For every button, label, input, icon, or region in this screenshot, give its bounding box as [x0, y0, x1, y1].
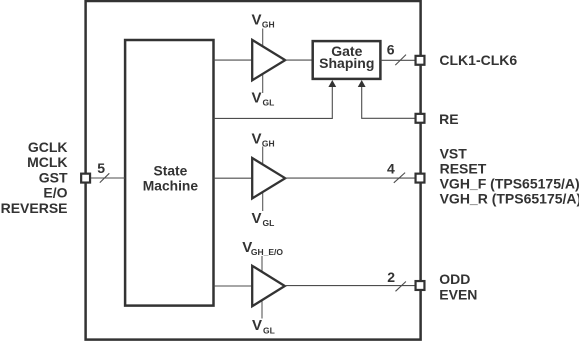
svg-text:REVERSE: REVERSE — [1, 200, 68, 216]
arrowhead into Gate Shaping (left) — [328, 80, 336, 87]
svg-text:ODD: ODD — [439, 271, 470, 287]
buffer A1 (level shifter triangle) — [252, 40, 285, 80]
buffer A2 (level shifter triangle) — [252, 158, 285, 198]
svg-text:5: 5 — [97, 160, 105, 176]
outer chip boundary box — [86, 1, 421, 340]
svg-text:GH: GH — [262, 139, 275, 149]
svg-text:Machine: Machine — [143, 179, 199, 194]
svg-text:Shaping: Shaping — [319, 55, 374, 71]
bus slash (6) — [395, 55, 406, 66]
svg-text:VGH_R (TPS65175/A): VGH_R (TPS65175/A) — [440, 191, 579, 207]
svg-text:V: V — [252, 210, 262, 227]
pin P6 output port square — [416, 56, 425, 65]
wire: State Machine to buffer A3 — [214, 285, 253, 287]
pin P2 output port square — [416, 281, 425, 290]
wire: RE pin to Gate Shaping control (arrow 2) — [362, 86, 416, 118]
bus slash (2) — [396, 282, 406, 292]
svg-text:V: V — [252, 317, 262, 334]
svg-text:GL: GL — [263, 97, 275, 107]
svg-text:State: State — [154, 164, 188, 179]
wire: State Machine to Gate Shaping control (arrow 1) — [214, 86, 333, 118]
Gate Shaping block — [313, 41, 381, 79]
svg-text:GH: GH — [262, 20, 275, 30]
wire: buffer A1 to Gate Shaping — [285, 59, 313, 61]
svg-text:RESET: RESET — [440, 160, 487, 176]
pin P5 input port square — [81, 174, 90, 183]
svg-text:CLK1-CLK6: CLK1-CLK6 — [439, 52, 517, 68]
bus slash (5) — [100, 173, 110, 182]
svg-text:V: V — [252, 130, 262, 147]
buffer A3 (level shifter triangle) — [252, 266, 285, 306]
wire: State Machine to buffer A2 — [214, 177, 253, 179]
arrowhead into Gate Shaping (right) — [358, 80, 366, 87]
svg-text:GH_E/O: GH_E/O — [251, 247, 284, 257]
svg-text:MCLK: MCLK — [27, 154, 67, 170]
svg-text:VST: VST — [440, 145, 468, 161]
svg-text:2: 2 — [387, 269, 395, 285]
wire: buffer A3 to pin P2 — [285, 285, 416, 287]
supply line through buffer A1 — [262, 29, 264, 94]
svg-text:GST: GST — [39, 169, 68, 185]
State Machine block U1 — [125, 40, 213, 306]
pin RE port square — [416, 114, 425, 123]
svg-text:6: 6 — [387, 42, 395, 58]
svg-text:GL: GL — [263, 325, 275, 335]
wire: buffer A2 to pin P4 — [285, 177, 415, 179]
wire: input bus pin5 to State Machine — [90, 177, 125, 179]
svg-text:V: V — [252, 11, 262, 28]
supply line through buffer A3 — [261, 256, 263, 319]
pin P4 output port square — [416, 174, 425, 183]
svg-text:GCLK: GCLK — [28, 139, 68, 155]
svg-text:RE: RE — [439, 111, 458, 127]
svg-text:4: 4 — [387, 160, 395, 176]
svg-text:VGH_F (TPS65175/A): VGH_F (TPS65175/A) — [440, 176, 579, 192]
bus slash (4) — [394, 173, 405, 183]
svg-text:EVEN: EVEN — [439, 287, 477, 303]
svg-text:GL: GL — [263, 218, 275, 228]
wire: Gate Shaping to pin P6 — [380, 59, 415, 61]
svg-text:E/O: E/O — [43, 185, 67, 201]
svg-text:V: V — [252, 90, 262, 107]
wire: State Machine to buffer A1 — [214, 59, 253, 61]
supply line through buffer A2 — [262, 147, 264, 212]
